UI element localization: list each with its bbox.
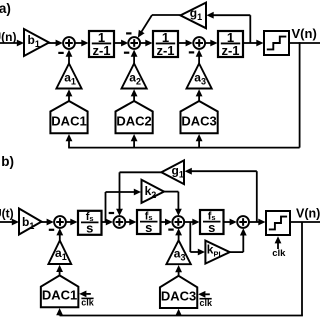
svg-text:clk: clk [81,298,95,308]
svg-text:DAC2: DAC2 [116,113,151,128]
svg-text:V(n): V(n) [296,207,320,221]
svg-text:b): b) [1,154,14,169]
svg-text:DAC1: DAC1 [51,113,86,128]
svg-text:DAC3: DAC3 [161,289,196,304]
svg-text:clk: clk [200,298,214,308]
svg-text:DAC3: DAC3 [181,113,216,128]
svg-text:a): a) [0,1,11,16]
svg-text:z-1: z-1 [221,43,239,58]
svg-text:z-1: z-1 [156,43,174,58]
svg-text:s: s [86,221,93,236]
svg-text:s: s [145,220,152,235]
svg-text:s: s [208,220,215,235]
svg-text:V(n): V(n) [292,26,317,41]
svg-text:z-1: z-1 [92,43,110,58]
svg-text:clk: clk [272,248,286,259]
svg-text:U(t): U(t) [0,207,14,221]
svg-text:DAC1: DAC1 [42,288,77,303]
